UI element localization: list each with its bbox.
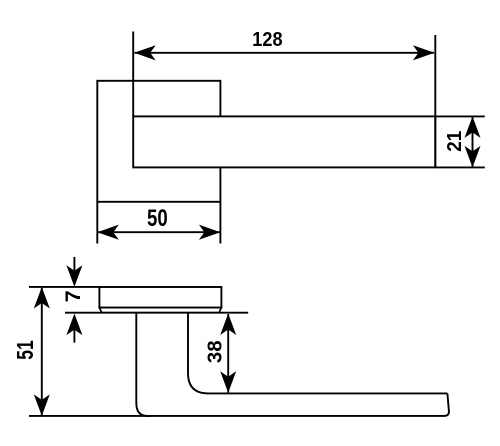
extension line left of 50 dimension — [96, 202, 98, 244]
arrowhead left of 50 — [97, 225, 119, 240]
extension line top of 21 dimension — [435, 115, 485, 117]
arrowhead down of 7 (above, pointing to rose top) — [66, 265, 82, 287]
rose plate bottom lip (side view) — [99, 308, 221, 313]
dimension line 38 — [227, 314, 229, 392]
arrowhead right of 128 — [413, 45, 435, 60]
arrowhead up of 7 (below, pointing to door line) — [66, 314, 82, 336]
arrowhead down of 38 — [220, 371, 236, 393]
dimension 7 bottom arrow tail — [73, 329, 75, 343]
svg-text:51: 51 — [14, 340, 39, 359]
handle outer contour: neck left edge curving into grip bottom (side view) — [136, 313, 444, 416]
rose plate body (side view) — [99, 287, 221, 308]
dimension line 51 — [41, 288, 43, 415]
arrowhead left of 128 — [134, 45, 156, 60]
svg-text:50: 50 — [147, 203, 168, 231]
dimension line 21 — [472, 117, 474, 167]
dimension line 50 — [98, 231, 220, 233]
extension line left of 128 dimension — [132, 32, 134, 117]
extension line top left (side view, rose top level) — [29, 286, 99, 288]
dimension 7 top arrow tail — [73, 257, 75, 272]
lever bar (top view) — [133, 116, 435, 167]
arrowhead down of 21 — [465, 146, 481, 168]
extension line right of 128 dimension — [434, 35, 436, 167]
dimension line 128 — [135, 52, 435, 54]
arrowhead up of 21 — [465, 116, 481, 137]
svg-text:21: 21 — [443, 131, 466, 152]
grip right end cap (side view) — [445, 393, 449, 416]
arrowhead up of 51 — [34, 287, 50, 309]
extension line bottom of 21 dimension — [435, 166, 485, 168]
rose plate square (top view) — [97, 81, 220, 202]
handle inner contour: neck right edge curving into grip top (side view) — [188, 313, 447, 394]
extension line right of 50 dimension — [219, 202, 221, 244]
arrowhead right of 50 — [199, 225, 221, 240]
svg-text:38: 38 — [204, 340, 227, 363]
door surface line (side view) — [65, 312, 248, 314]
svg-text:128: 128 — [252, 28, 282, 51]
arrowhead up of 38 — [220, 314, 236, 336]
svg-text:7: 7 — [61, 290, 85, 302]
extension line bottom left (side view, grip bottom level) — [29, 415, 151, 417]
arrowhead down of 51 — [34, 394, 50, 416]
